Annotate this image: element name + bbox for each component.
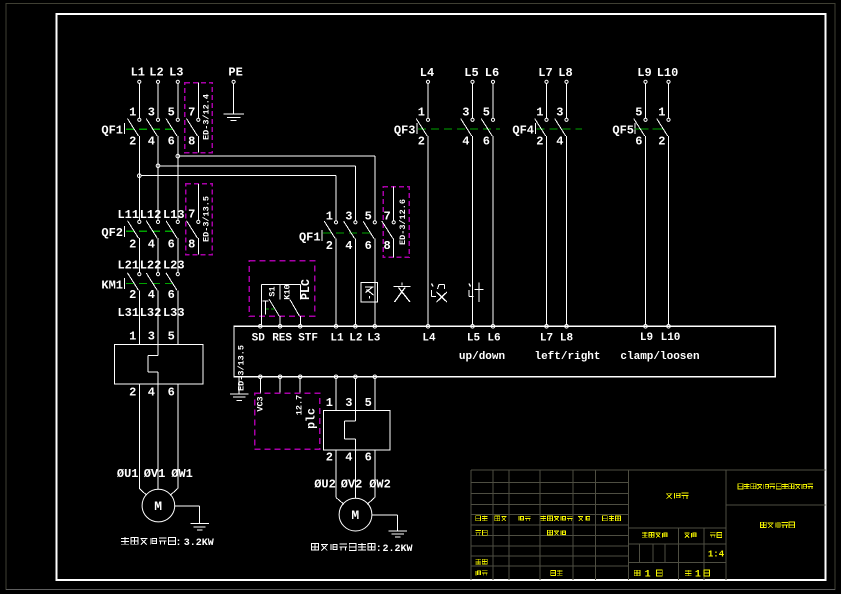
- wire VFD V out: [354, 379, 356, 411]
- breaker QF4 pole 1: [535, 118, 548, 136]
- wire SD in box: [261, 284, 263, 316]
- breaker QF1b linkage: [323, 232, 371, 234]
- wire VFD U out: [335, 379, 337, 411]
- pin 2 QF4: [536, 134, 543, 148]
- thermal relay FR1: [114, 345, 203, 384]
- plc box lower: [255, 393, 320, 449]
- wire branch L3 to QF1b: [180, 156, 375, 221]
- breaker QF3 linkage: [418, 128, 500, 130]
- wire V1: [157, 384, 159, 490]
- wire L3 to QF1: [177, 83, 179, 118]
- wire L22 phase: [157, 238, 159, 272]
- VFD label L9: [640, 332, 653, 344]
- svg-text:QF1: QF1: [101, 123, 123, 137]
- svg-text:STF: STF: [298, 333, 318, 345]
- svg-text:2: 2: [326, 239, 333, 253]
- VFD terminal L8: [565, 325, 569, 329]
- wire STF stub: [300, 284, 302, 299]
- svg-text:L13: L13: [163, 208, 185, 222]
- pin 1 FR2: [326, 396, 333, 410]
- title text shuliang: [684, 533, 696, 538]
- watermark char TU: [361, 283, 378, 303]
- VFD terminal L10: [667, 325, 671, 329]
- VFD terminal L9: [644, 325, 648, 329]
- breaker QF3 pole 1: [416, 118, 429, 136]
- svg-text:L23: L23: [163, 259, 185, 273]
- contactor KM1 pole 3: [166, 273, 179, 291]
- pin 5 QF1b: [365, 210, 372, 224]
- pin 1 QF4: [536, 106, 543, 120]
- svg-text:L2: L2: [349, 333, 362, 345]
- svg-text::: :: [376, 544, 382, 555]
- wire QF1 pole4 bottom: [197, 136, 199, 153]
- wire QF1b pole4 bottom: [393, 239, 395, 258]
- svg-text:S1: S1: [268, 286, 278, 296]
- wire L1 phase down: [138, 136, 140, 220]
- wire L10 to VFD: [668, 136, 670, 325]
- wire SD to VFD: [261, 316, 263, 324]
- breaker QF5 pole 1: [634, 118, 647, 136]
- pin 8 QF1b: [383, 239, 390, 253]
- svg-text:1: 1: [129, 106, 136, 120]
- title text gong 1 zhang: [634, 570, 662, 581]
- pin 5 FR2: [365, 396, 372, 410]
- svg-text:3: 3: [345, 210, 352, 224]
- svg-text:L10: L10: [657, 66, 679, 80]
- switch S1 operator: [263, 301, 275, 315]
- VFD terminal RES: [278, 325, 282, 329]
- svg-text:RES: RES: [272, 333, 292, 345]
- terminal PE: [232, 80, 235, 83]
- pin 4 QF3: [462, 134, 469, 148]
- svg-text:4: 4: [345, 239, 352, 253]
- VFD label L7: [540, 333, 553, 345]
- wire STF down: [299, 379, 301, 394]
- wire RES down: [279, 379, 281, 394]
- svg-text:2: 2: [658, 134, 665, 148]
- svg-text::: :: [175, 538, 181, 549]
- junction node L1 branch: [138, 174, 142, 178]
- pin 2 KM1: [129, 288, 136, 302]
- node L13 label: [163, 208, 185, 222]
- pin 1 FR1: [129, 330, 136, 344]
- wire L31 phase: [138, 290, 140, 344]
- svg-text:ØU2: ØU2: [314, 478, 336, 492]
- pin 2 QF1b: [326, 239, 333, 253]
- junction node L2 branch: [156, 164, 160, 168]
- breaker QF3 pole 2: [461, 118, 474, 136]
- node L31 label: [117, 306, 139, 320]
- breaker QF1 pole 1: [128, 118, 141, 136]
- svg-text:1: 1: [418, 106, 425, 120]
- switch S1 blade: [269, 299, 279, 316]
- svg-text:L2: L2: [149, 66, 163, 80]
- svg-text:5: 5: [168, 330, 175, 344]
- svg-text:2: 2: [418, 134, 425, 148]
- pin 2 FR2: [326, 450, 333, 464]
- pin 6 FR2: [365, 450, 372, 464]
- svg-text:12.7: 12.7: [295, 395, 305, 415]
- svg-text:ED-3/13.5: ED-3/13.5: [201, 196, 211, 242]
- wire QF2 pole4 bottom: [197, 238, 199, 255]
- svg-text:1:4: 1:4: [708, 549, 725, 559]
- VFD label SD: [252, 333, 266, 345]
- svg-text:2: 2: [129, 237, 136, 251]
- pin 1 QF1: [129, 106, 136, 120]
- wire L33 phase: [177, 290, 179, 344]
- pin 4 KM1: [148, 288, 155, 302]
- svg-text:8: 8: [188, 237, 195, 251]
- node L7 label/terminal/wire: [538, 66, 552, 118]
- node L33 label: [163, 306, 185, 320]
- wire L32 phase: [157, 290, 159, 344]
- wire L23 phase: [177, 238, 179, 272]
- svg-text:L3: L3: [169, 66, 183, 80]
- shunt release box QF1b: [383, 187, 409, 258]
- pin 6 QF5: [635, 134, 642, 148]
- svg-text:2: 2: [536, 134, 543, 148]
- svg-text:M: M: [351, 508, 359, 523]
- pin 8 QF1: [188, 134, 195, 148]
- VFD terminal L7: [545, 325, 549, 329]
- label PLC: [300, 279, 313, 300]
- value label ED-3/12.4: [201, 94, 211, 140]
- pin 4 QF1b: [345, 239, 352, 253]
- VFD bottom terminal V: [354, 375, 358, 379]
- pin 4 QF4: [556, 134, 563, 148]
- svg-text:L4: L4: [422, 333, 436, 345]
- wire RES to VFD: [279, 316, 281, 325]
- wire L3 to VFD: [374, 239, 376, 325]
- contactor KM1 pole 2: [146, 273, 159, 291]
- node OU2 label: [314, 478, 336, 492]
- svg-text:L8: L8: [560, 333, 574, 345]
- node L2 label: [149, 66, 163, 80]
- svg-text:PE: PE: [228, 66, 242, 80]
- pin 4 FR1: [148, 385, 155, 399]
- title text di 1 zhang: [685, 570, 709, 581]
- node L4 label/terminal/wire: [420, 66, 434, 118]
- node L11 label: [117, 208, 139, 222]
- pin 1 QF5: [658, 106, 665, 120]
- title text project name: [738, 484, 813, 490]
- svg-text:KM1: KM1: [101, 278, 123, 292]
- pin 5 FR1: [168, 330, 175, 344]
- wire L3 phase down: [177, 136, 179, 220]
- svg-text:QF3: QF3: [394, 123, 416, 137]
- svg-text:L33: L33: [163, 306, 185, 320]
- svg-text:2: 2: [326, 450, 333, 464]
- svg-text:2.2KW: 2.2KW: [382, 544, 412, 555]
- pin 2 QF2: [129, 237, 136, 251]
- node L10 label/terminal/wire: [657, 66, 679, 118]
- svg-text:7: 7: [188, 208, 195, 222]
- title text bili: [710, 532, 722, 537]
- VFD terminal SD: [259, 325, 263, 329]
- thermal relay FR2: [324, 411, 391, 450]
- svg-text:3: 3: [345, 396, 352, 410]
- motor M2: [339, 498, 372, 531]
- VFD label L8: [560, 333, 574, 345]
- svg-text:1: 1: [326, 396, 333, 410]
- svg-text:L5: L5: [464, 66, 478, 80]
- pin 5 QF3: [483, 106, 490, 120]
- node L1 label: [131, 66, 145, 80]
- node L32 label: [140, 306, 162, 320]
- wire SD down: [259, 379, 261, 394]
- wire QF1b pole4 top: [393, 187, 395, 221]
- VFD label STF: [298, 333, 318, 345]
- svg-text:5: 5: [365, 396, 372, 410]
- value label ED-3/12.6: [398, 199, 408, 245]
- wire branch L1 to QF1b: [141, 176, 336, 221]
- node L5 label/terminal/wire: [464, 66, 478, 118]
- breaker QF5 label: [612, 123, 635, 137]
- svg-text:QF5: QF5: [612, 123, 634, 137]
- shunt release box QF2: [186, 184, 213, 255]
- pin 6 QF1b: [365, 239, 372, 253]
- wire W1: [170, 384, 178, 495]
- svg-text:QF2: QF2: [101, 226, 123, 240]
- title text jiexiantu: [666, 493, 689, 499]
- breaker QF1 linkage: [126, 128, 174, 130]
- node OV2 label: [341, 478, 363, 492]
- svg-text:4: 4: [148, 237, 155, 251]
- title text genggai: [541, 516, 573, 521]
- VFD bottom terminal W: [373, 375, 377, 379]
- svg-text:2: 2: [129, 288, 136, 302]
- ground M2: [389, 531, 407, 537]
- svg-text:L1: L1: [330, 333, 344, 345]
- breaker QF4 pole 2: [555, 118, 568, 136]
- svg-text:3: 3: [462, 106, 469, 120]
- pin 4 QF2: [148, 237, 155, 251]
- wire L2 to QF1: [157, 83, 159, 118]
- pin 2 QF5: [658, 134, 665, 148]
- title text nianyueri: [603, 516, 621, 521]
- svg-text:8: 8: [383, 239, 390, 253]
- pin 7 QF2: [188, 208, 195, 222]
- VFD label L10: [661, 332, 681, 344]
- PLC bus wire: [262, 283, 301, 285]
- svg-text:4: 4: [556, 134, 563, 148]
- title text shenhe: [476, 559, 488, 564]
- VFD terminal L2: [354, 325, 358, 329]
- svg-text:3: 3: [148, 330, 155, 344]
- svg-text:4: 4: [148, 134, 155, 148]
- VFD label left/right: [534, 351, 600, 363]
- title text gongyi: [476, 571, 487, 576]
- pin 3 QF1: [148, 106, 155, 120]
- caption pump motor power: [311, 543, 412, 555]
- svg-text:L3: L3: [367, 333, 381, 345]
- pin 5 QF5: [635, 106, 642, 120]
- title block grid: [471, 470, 826, 580]
- breaker QF2 pole 4: [187, 220, 200, 238]
- wire L2 phase down: [157, 136, 159, 220]
- wire L5 to VFD: [472, 136, 474, 325]
- motor M1: [142, 489, 175, 522]
- svg-text:M: M: [154, 499, 162, 514]
- svg-text:3: 3: [148, 106, 155, 120]
- breaker QF1 pole 4: [187, 118, 200, 136]
- svg-text:3.2KW: 3.2KW: [184, 538, 214, 549]
- pin 3 FR1: [148, 330, 155, 344]
- svg-text:6: 6: [483, 134, 490, 148]
- pin 7 QF1: [188, 106, 195, 120]
- VFD label L5: [467, 333, 481, 345]
- svg-text:6: 6: [365, 450, 372, 464]
- terminal L3: [176, 80, 179, 83]
- node L6 label/terminal/wire: [485, 66, 499, 118]
- svg-text:clamp/loosen: clamp/loosen: [620, 351, 699, 363]
- wire M1 ground: [175, 506, 200, 523]
- VFD bottom terminal STF: [298, 375, 302, 379]
- breaker QF4 linkage: [537, 128, 583, 130]
- VFD terminal L5: [471, 325, 475, 329]
- breaker QF2 pole 1: [128, 220, 141, 238]
- wire L21 phase: [138, 238, 140, 272]
- svg-text:ØW2: ØW2: [369, 478, 391, 492]
- svg-text:L6: L6: [487, 333, 500, 345]
- VFD label RES: [272, 333, 292, 345]
- contactor KM1 linkage: [126, 282, 174, 284]
- watermark char JI: [469, 283, 484, 303]
- VFD label L3: [367, 333, 381, 345]
- svg-text:4: 4: [148, 288, 155, 302]
- svg-text:6: 6: [635, 134, 642, 148]
- wire W2: [367, 450, 375, 504]
- breaker QF1 label: [101, 123, 124, 137]
- pin 3 FR2: [345, 396, 352, 410]
- terminal L1: [138, 80, 141, 83]
- svg-text:SD: SD: [252, 333, 266, 345]
- breaker QF1 pole 3: [166, 118, 179, 136]
- value label ED-3/13.5 VFD: [237, 345, 247, 391]
- wire L8 to VFD: [566, 136, 568, 325]
- title text sheji: [476, 530, 488, 535]
- svg-text:ED-3/12.6: ED-3/12.6: [398, 199, 408, 245]
- node L23 label: [163, 259, 185, 273]
- wire STF to VFD: [299, 316, 301, 325]
- svg-text:L31: L31: [117, 306, 139, 320]
- VFD bottom terminal SD: [259, 375, 263, 379]
- VFD terminal STF: [298, 325, 302, 329]
- breaker QF1b label: [299, 230, 322, 244]
- svg-text:4: 4: [148, 385, 155, 399]
- pin 2 QF1: [129, 134, 136, 148]
- svg-text:L22: L22: [140, 259, 162, 273]
- wire PE: [233, 83, 235, 114]
- ground PE: [223, 114, 243, 120]
- wire VFD W out: [374, 379, 376, 411]
- svg-text:5: 5: [483, 106, 490, 120]
- node OW1 label: [171, 467, 193, 481]
- wire V2: [354, 450, 356, 499]
- breaker QF3 label: [394, 123, 417, 137]
- svg-text:ED-3/12.4: ED-3/12.4: [201, 94, 211, 140]
- pin 1 QF3: [418, 106, 425, 120]
- value label ED-3/13.5: [201, 196, 211, 242]
- wire L9 to VFD: [645, 136, 647, 325]
- wire U2: [336, 450, 344, 504]
- svg-text:L8: L8: [558, 66, 572, 80]
- pin 3 QF3: [462, 106, 469, 120]
- svg-text:1: 1: [129, 330, 136, 344]
- svg-text:1: 1: [645, 570, 651, 581]
- node OU1 label: [117, 467, 139, 481]
- wire L1 to QF1: [138, 83, 140, 118]
- breaker QF5 pole 2: [657, 118, 670, 136]
- svg-text:2: 2: [129, 134, 136, 148]
- pin 2 QF3: [418, 134, 425, 148]
- wire branch L2 to QF1b: [160, 166, 356, 221]
- pin 7 QF1b: [383, 210, 390, 224]
- breaker QF1b pole 3: [363, 221, 376, 239]
- svg-text:L4: L4: [420, 66, 434, 80]
- VFD terminal L3: [373, 325, 377, 329]
- svg-text:L5: L5: [467, 333, 481, 345]
- svg-text:QF1: QF1: [299, 230, 321, 244]
- title text chushu: [495, 516, 507, 521]
- pin 3 QF1b: [345, 210, 352, 224]
- svg-text:6: 6: [168, 385, 175, 399]
- VFD terminal L4: [426, 325, 430, 329]
- svg-text:QF4: QF4: [512, 123, 534, 137]
- caption travel motor power: [121, 537, 213, 549]
- VFD label clamp/loosen: [620, 351, 699, 363]
- svg-text:8: 8: [188, 134, 195, 148]
- svg-text:plc: plc: [306, 408, 319, 429]
- svg-text:6: 6: [168, 288, 175, 302]
- svg-text:L32: L32: [140, 306, 162, 320]
- label 12.7: [295, 395, 305, 415]
- VFD inverter box: [234, 326, 776, 377]
- VFD terminal L1: [334, 325, 338, 329]
- pin 6 KM1: [168, 288, 175, 302]
- pin 4 FR2: [345, 450, 352, 464]
- node OW2 label: [369, 478, 391, 492]
- VFD bottom terminal RES: [278, 375, 282, 379]
- watermark char WEN: [394, 283, 411, 303]
- VFD label up/down: [459, 351, 505, 363]
- wire L6 to VFD: [492, 136, 494, 325]
- label VC3: [256, 396, 266, 411]
- svg-text:K10: K10: [283, 284, 293, 299]
- svg-text:ED-3/13.5: ED-3/13.5: [237, 345, 247, 391]
- pin 6 FR1: [168, 385, 175, 399]
- svg-text:left/right: left/right: [534, 351, 600, 363]
- svg-text:4: 4: [345, 450, 352, 464]
- svg-text:L7: L7: [538, 66, 552, 80]
- svg-text:5: 5: [168, 106, 175, 120]
- wire L1 to VFD: [335, 239, 337, 325]
- svg-text:up/down: up/down: [459, 351, 505, 363]
- pin 5 QF1: [168, 106, 175, 120]
- svg-text:1: 1: [658, 106, 665, 120]
- PLC box: [249, 261, 314, 317]
- svg-text:L1: L1: [131, 66, 145, 80]
- breaker QF1b pole 1: [324, 221, 337, 239]
- svg-text:ØU1: ØU1: [117, 467, 139, 481]
- VFD bottom terminal U: [334, 375, 338, 379]
- watermark char SHE: [432, 284, 448, 303]
- VFD label L1: [330, 333, 344, 345]
- node PE label: [228, 66, 242, 80]
- label K10: [283, 284, 293, 299]
- title text dianqi yuanlitu: [761, 522, 795, 528]
- node L12 label: [140, 208, 162, 222]
